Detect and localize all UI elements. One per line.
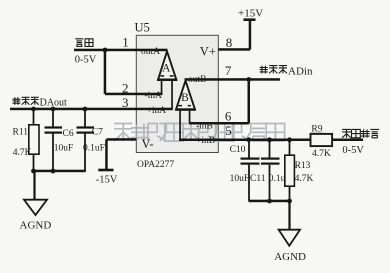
capacitor C7 plates: [77, 126, 95, 128]
label 单片机DAout: [13, 97, 21, 104]
svg-text:B: B: [181, 92, 189, 104]
svg-text:0.1uF: 0.1uF: [83, 143, 105, 153]
svg-text:1: 1: [122, 35, 129, 50]
op-amp U5 package outline: [136, 35, 218, 152]
capacitor C11 top lead: [269, 140, 271, 158]
wire: AGND drop right: [288, 201, 290, 230]
svg-text:AGND: AGND: [274, 251, 306, 263]
wire: +15V riser: [249, 20, 252, 50]
label 流量检测 flow detect: [342, 129, 351, 137]
op-amp A minus mark: [160, 75, 164, 77]
wire: R9 to flow input: [332, 139, 363, 142]
junction R13 bottom: [287, 199, 292, 204]
junction C6 top: [51, 107, 56, 112]
capacitor C6 bottom lead: [52, 134, 54, 171]
wire: pin 5 +inB rail: [179, 139, 311, 142]
junction R11 bottom: [31, 169, 36, 174]
svg-text:V+: V+: [200, 45, 216, 59]
wire: -inB lead: [189, 110, 191, 123]
svg-text:AGND: AGND: [20, 219, 52, 231]
svg-text:3: 3: [122, 95, 129, 110]
wire: -15V drop: [105, 140, 108, 171]
svg-text:R11: R11: [13, 128, 29, 138]
ground symbol AGND right: [279, 230, 300, 246]
op-amp A triangle: [158, 51, 176, 80]
svg-text:+inA: +inA: [147, 106, 167, 116]
op-amp A base bar: [157, 79, 177, 82]
power bar -15V: [98, 169, 113, 172]
svg-text:10uF: 10uF: [54, 143, 74, 153]
wire: outB lead: [185, 80, 187, 82]
wire: pin 2 -inA: [105, 93, 163, 96]
svg-text:A: A: [162, 63, 171, 75]
svg-text:+15V: +15V: [238, 8, 263, 20]
svg-text:C6: C6: [63, 129, 74, 139]
svg-text:8: 8: [226, 35, 233, 50]
svg-text:0.1u: 0.1u: [269, 174, 286, 184]
svg-text:DAout: DAout: [40, 97, 67, 108]
svg-text:R13: R13: [295, 161, 311, 171]
label 设定 setpoint: [75, 39, 83, 47]
junction C11 bottom: [267, 199, 272, 204]
svg-text:C7: C7: [92, 128, 103, 138]
capacitor C10 top lead: [248, 140, 250, 158]
junction C10 top: [246, 137, 251, 142]
wire: DAout to pin 3 +inA: [10, 108, 173, 111]
junction R11 top: [31, 107, 36, 112]
svg-text:U5: U5: [135, 21, 150, 35]
watermark 杭州将睿科技有限公司: [114, 124, 285, 142]
wire: pin 8 to +15V: [218, 48, 250, 51]
ground rail right: [249, 200, 291, 203]
svg-text:6: 6: [225, 109, 232, 124]
wire: pin 4 V- to -15V: [107, 138, 137, 141]
power bar +15V: [244, 18, 256, 21]
resistor R11 body: [29, 125, 39, 154]
wire: R11 bottom lead: [33, 154, 35, 171]
wire: pin 6 -inB: [189, 122, 249, 125]
wire: R13 top lead: [289, 140, 291, 155]
wire: R11 top lead: [33, 109, 35, 125]
junction C11 top: [267, 137, 272, 142]
capacitor C11 plates: [261, 158, 280, 160]
svg-text:outA: outA: [141, 47, 160, 57]
op-amp B minus mark: [188, 105, 191, 107]
wire: setpoint to pin 1 outA: [74, 49, 167, 52]
wire: feedback drop to pin 6: [248, 80, 251, 124]
svg-text:ADin: ADin: [288, 66, 313, 78]
resistor R9 body: [311, 134, 333, 146]
junction C6 bottom: [51, 169, 56, 174]
svg-text:0-5V: 0-5V: [342, 145, 364, 156]
svg-text:2: 2: [122, 80, 129, 95]
wire: -inA lead: [161, 80, 163, 94]
svg-text:4.7K: 4.7K: [13, 148, 32, 158]
svg-text:C10: C10: [230, 145, 246, 155]
svg-text:OPA2277: OPA2277: [137, 160, 174, 170]
capacitor C7 top lead: [84, 109, 86, 127]
svg-text:V-: V-: [142, 137, 154, 151]
svg-text:7: 7: [225, 63, 232, 78]
ground rail left: [34, 170, 86, 173]
wire: R13 bottom lead: [289, 186, 291, 201]
svg-text:4.7K: 4.7K: [295, 174, 314, 184]
op-amp A plus mark: [170, 75, 174, 77]
wire: pin 7 outB: [185, 78, 281, 81]
junction R13 top: [287, 137, 292, 142]
wire: +inA lead: [171, 80, 173, 109]
op-amp B base bar: [175, 108, 195, 111]
capacitor C6 top lead: [52, 109, 54, 127]
junction outB feedback node: [246, 77, 251, 82]
capacitor C10 bottom lead: [248, 165, 250, 201]
ground symbol AGND left: [24, 200, 47, 215]
op-amp B plus mark: [178, 105, 182, 107]
svg-text:0-5V: 0-5V: [75, 54, 97, 65]
wire: +inB lead: [179, 110, 181, 140]
capacitor C7 bottom lead: [84, 134, 86, 171]
junction pin1 feedback node: [103, 48, 108, 53]
svg-text:-inA: -inA: [145, 91, 163, 101]
capacitor C11 bottom lead: [269, 165, 271, 201]
svg-text:4.7K: 4.7K: [312, 149, 331, 159]
svg-text:-15V: -15V: [96, 174, 118, 185]
resistor R13 body: [285, 155, 295, 186]
op-amp B triangle: [176, 81, 195, 110]
wire: AGND drop left: [33, 171, 35, 200]
svg-text:C11: C11: [250, 174, 266, 184]
junction C7 top: [83, 107, 88, 112]
svg-text:10uF: 10uF: [230, 174, 250, 184]
capacitor C10 plates: [241, 158, 260, 160]
svg-text:5: 5: [225, 123, 232, 138]
label 单片机ADin: [260, 66, 268, 74]
capacitor C6 plates: [45, 126, 63, 128]
wire: feedback drop from pin 1 node: [104, 50, 107, 94]
